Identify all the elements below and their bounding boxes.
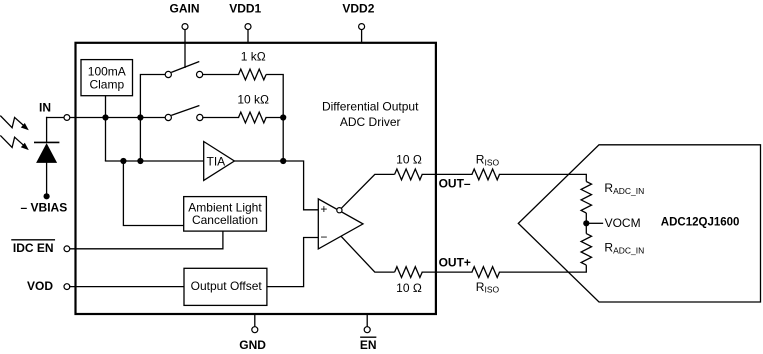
- wire R2 to right vertical: [266, 117, 283, 119]
- wire op-amp to OUT+: [341, 236, 395, 272]
- svg-text:VOCM: VOCM: [605, 216, 641, 230]
- svg-text:ADC12QJ1600: ADC12QJ1600: [661, 216, 740, 228]
- svg-text:10 Ω: 10 Ω: [396, 153, 422, 167]
- pin VDD1: [229, 2, 261, 43]
- svg-text:IN: IN: [39, 100, 51, 114]
- svg-text:OUT+: OUT+: [439, 255, 471, 269]
- wire ALC left to TIA input line: [123, 161, 183, 226]
- junction clamp/IN: [102, 114, 108, 120]
- svg-text:Differential Output: Differential Output: [322, 100, 419, 114]
- resistor Radc_in (bottom): [581, 223, 644, 272]
- wire Riso to ADC input: [500, 173, 587, 175]
- wire TIA output to op-amp + input: [234, 161, 318, 210]
- output bubble (inverting): [337, 208, 342, 213]
- light arrow 2: [0, 135, 29, 150]
- amplifier TIA: [204, 142, 235, 181]
- photodiode D1: [34, 118, 59, 197]
- switch S2: [165, 106, 203, 121]
- svg-text:Cancellation: Cancellation: [192, 213, 258, 227]
- svg-text:Output Offset: Output Offset: [191, 279, 263, 293]
- block 100mA Clamp: [81, 60, 133, 96]
- node -VBIAS: [21, 193, 68, 214]
- node VOCM: [583, 216, 640, 230]
- wire through box edge, node OUT-: [422, 173, 472, 175]
- svg-text:OUT–: OUT–: [439, 177, 471, 191]
- svg-text:1 kΩ: 1 kΩ: [241, 50, 266, 64]
- wire IDC EN to ALC: [70, 231, 223, 249]
- label Differential Output ADC Driver: [322, 100, 419, 129]
- ADC12QJ1600 block: [518, 145, 760, 302]
- svg-text:VDD1: VDD1: [229, 2, 261, 16]
- svg-text:VDD2: VDD2: [342, 2, 374, 16]
- svg-text:100mA: 100mA: [88, 64, 126, 78]
- pin GAIN: [170, 2, 200, 68]
- junction: [280, 114, 286, 120]
- junction: [137, 114, 143, 120]
- resistor Riso (bottom): [472, 267, 500, 295]
- resistor 1 kOhm: [239, 50, 267, 80]
- resistor 10 kOhm: [237, 93, 269, 123]
- light arrow 1: [0, 116, 29, 131]
- svg-text:+: +: [320, 202, 327, 216]
- wire S1 to R1: [203, 74, 239, 76]
- svg-text:ADC Driver: ADC Driver: [340, 115, 401, 129]
- wire TIA input line: [106, 160, 204, 162]
- wire Output Offset to op-amp - input: [267, 238, 318, 287]
- junction: [280, 158, 286, 164]
- svg-text:GND: GND: [239, 338, 266, 352]
- pin IN: [39, 100, 70, 120]
- svg-text:Clamp: Clamp: [89, 78, 124, 92]
- block Ambient Light Cancellation: [184, 197, 267, 232]
- svg-text:10 Ω: 10 Ω: [396, 281, 422, 295]
- junction: [137, 158, 143, 164]
- wire IN to switch 2: [47, 117, 166, 119]
- pin EN (active low): [360, 314, 377, 352]
- pin VDD2: [342, 2, 374, 43]
- svg-text:−: −: [320, 230, 327, 244]
- wire VOD to Output Offset: [70, 286, 184, 288]
- wire Riso to ADC input: [500, 271, 587, 273]
- svg-text:TIA: TIA: [207, 154, 226, 168]
- svg-text:– VBIAS: – VBIAS: [21, 201, 68, 215]
- wire through box edge, node OUT+: [422, 271, 472, 273]
- svg-text:VOD: VOD: [27, 279, 53, 293]
- wire S2 to R2: [203, 117, 239, 119]
- resistor 10 Ohm (bottom): [395, 267, 423, 295]
- resistor 10 Ohm (top): [395, 153, 423, 180]
- op-amp fully differential driver: [318, 199, 363, 249]
- pin GND: [239, 314, 266, 352]
- block Output Offset: [184, 268, 267, 305]
- wire clamp down to TIA input line: [105, 96, 107, 161]
- svg-text:GAIN: GAIN: [170, 2, 200, 16]
- resistor Radc_in (top): [581, 174, 644, 223]
- wire op-amp to OUT-: [341, 174, 394, 208]
- pin IDC EN (active low): [12, 240, 70, 255]
- main block enclosure: [76, 43, 436, 314]
- resistor Riso (top): [472, 153, 500, 180]
- pin VOD: [27, 279, 70, 293]
- wire switch1 left vertical: [140, 75, 165, 162]
- switch S1 (GAIN): [165, 62, 203, 78]
- svg-text:IDC EN: IDC EN: [13, 241, 54, 255]
- svg-text:EN: EN: [360, 338, 377, 352]
- junction ALC branch: [120, 158, 126, 164]
- wire R1 to right vertical: [266, 75, 283, 162]
- svg-text:10 kΩ: 10 kΩ: [237, 93, 269, 107]
